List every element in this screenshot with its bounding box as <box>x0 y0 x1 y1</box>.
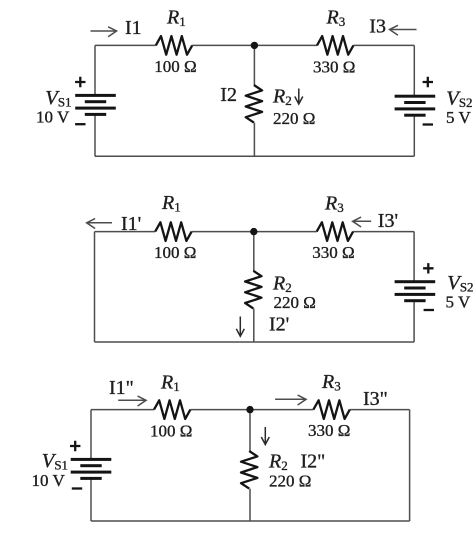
plus terminal VS2 (circuit 1) <box>423 77 433 87</box>
label VS2 (circuit 2) <box>447 272 473 295</box>
wire: circuit 3 top-right segment <box>350 409 410 411</box>
wire: circuit 1 right lower <box>413 115 415 156</box>
wire: circuit 2 right upper <box>413 232 415 282</box>
wire: circuit 1 left lower <box>94 114 96 156</box>
current arrow I3prime (circuit 2) <box>353 217 372 227</box>
svg-text:R2: R2 <box>272 86 292 109</box>
svg-text:I2": I2" <box>301 451 326 473</box>
wire: circuit 1 middle branch lower <box>253 123 255 157</box>
wire: circuit 3 left upper <box>90 410 92 460</box>
svg-text:100 Ω: 100 Ω <box>154 243 196 262</box>
wire: circuit 1 left upper <box>94 45 96 95</box>
resistor R3 (circuit 2) <box>317 222 353 241</box>
label R3 (circuit 1) <box>326 7 346 30</box>
minus terminal VS2 (circuit 1) <box>423 123 433 125</box>
svg-text:330 Ω: 330 Ω <box>308 421 350 440</box>
svg-text:R2: R2 <box>268 451 288 474</box>
minus terminal VS1 (circuit 1) <box>75 123 85 125</box>
node junction circuit 1 <box>251 42 258 49</box>
wire: circuit 1 top-left segment <box>95 44 156 46</box>
svg-text:R3: R3 <box>326 7 346 30</box>
wire: circuit 3 right side <box>409 410 411 521</box>
value 100 ohm (circuit 1) <box>154 57 196 76</box>
svg-text:I1: I1 <box>125 17 142 39</box>
wire: circuit 3 middle branch upper <box>249 410 251 451</box>
resistor R1 (circuit 1) <box>156 36 192 55</box>
minus terminal VS2 (circuit 2) <box>424 309 434 311</box>
wire: circuit 3 top-middle segment <box>190 409 313 411</box>
wire: circuit 1 top-right segment <box>353 44 414 46</box>
svg-text:220 Ω: 220 Ω <box>273 109 315 128</box>
label R2 (circuit 2) <box>272 273 292 296</box>
plus terminal VS1 (circuit 3) <box>70 441 80 451</box>
label VS1 (circuit 1) <box>45 87 71 110</box>
svg-text:R1: R1 <box>160 372 180 395</box>
svg-text:10 V: 10 V <box>36 108 70 127</box>
label R1 (circuit 2) <box>161 192 181 215</box>
wire: circuit 2 top-left segment <box>95 231 156 233</box>
node junction circuit 2 <box>250 228 257 235</box>
label I2 (circuit 1) <box>220 84 237 106</box>
battery VS2 (circuit 1) <box>395 95 436 117</box>
label I1 (circuit 1) <box>125 17 142 39</box>
svg-text:I2': I2' <box>269 313 289 335</box>
svg-text:I3": I3" <box>363 388 388 410</box>
wire: circuit 1 top-middle segment <box>192 44 317 46</box>
wire: circuit 3 middle branch lower <box>249 489 251 521</box>
value 100 ohm (circuit 2) <box>154 243 196 262</box>
plus terminal VS2 (circuit 2) <box>423 263 433 273</box>
value 330 ohm (circuit 2) <box>312 243 354 262</box>
wire: circuit 2 left side <box>94 232 96 342</box>
label I1prime (circuit 2) <box>121 213 141 235</box>
label I2doubleprime (circuit 3) <box>301 451 326 473</box>
value 5 V (circuit 2) <box>446 292 471 311</box>
node junction circuit 3 <box>246 406 253 413</box>
svg-text:5 V: 5 V <box>446 292 471 311</box>
wire: circuit 1 middle branch upper <box>253 45 255 85</box>
label I1doubleprime (circuit 3) <box>109 377 134 399</box>
current arrow I3 (circuit 1) <box>390 25 417 35</box>
value 5 V (circuit 1) <box>446 108 471 127</box>
battery VS1 (circuit 1) <box>75 94 116 116</box>
svg-text:I2: I2 <box>220 84 237 106</box>
resistor R3 (circuit 1) <box>317 36 353 55</box>
svg-text:I3': I3' <box>378 210 398 232</box>
svg-text:220 Ω: 220 Ω <box>274 293 316 312</box>
wire: circuit 2 top-right segment <box>353 231 414 233</box>
wire: circuit 2 top-middle segment <box>192 231 317 233</box>
battery VS2 (circuit 2) <box>395 280 436 302</box>
wire: circuit 2 bottom <box>95 341 415 343</box>
svg-text:330 Ω: 330 Ω <box>312 243 354 262</box>
svg-text:VS1: VS1 <box>42 450 68 473</box>
label I3prime (circuit 2) <box>378 210 398 232</box>
value 220 ohm (circuit 3) <box>269 472 311 491</box>
label I3 (circuit 1) <box>369 16 386 38</box>
label R3 (circuit 3) <box>321 371 341 394</box>
label R1 (circuit 1) <box>166 7 186 30</box>
svg-text:I1': I1' <box>121 213 141 235</box>
svg-text:10 V: 10 V <box>32 471 66 490</box>
svg-text:R2: R2 <box>272 273 292 296</box>
svg-text:220 Ω: 220 Ω <box>269 472 311 491</box>
wire: circuit 3 bottom <box>91 520 410 522</box>
resistor R3 (circuit 3) <box>313 400 349 419</box>
value 100 ohm (circuit 3) <box>150 422 192 441</box>
value 10 V (circuit 1) <box>36 108 70 127</box>
label I3doubleprime (circuit 3) <box>363 388 388 410</box>
svg-text:R3: R3 <box>324 193 344 216</box>
svg-text:100 Ω: 100 Ω <box>154 57 196 76</box>
value 10 V (circuit 3) <box>32 471 66 490</box>
label VS1 (circuit 3) <box>42 450 68 473</box>
label R1 (circuit 3) <box>160 372 180 395</box>
wire: circuit 1 right upper <box>413 45 415 96</box>
wire: circuit 3 left lower <box>90 478 92 521</box>
resistor R1 (circuit 3) <box>154 400 190 419</box>
svg-text:VS2: VS2 <box>447 272 473 295</box>
label I2prime (circuit 2) <box>269 313 289 335</box>
svg-text:R1: R1 <box>166 7 186 30</box>
label VS2 (circuit 1) <box>446 88 472 111</box>
current arrow I1doubleprime (circuit 3) <box>118 396 146 406</box>
svg-text:R3: R3 <box>321 371 341 394</box>
value 220 ohm (circuit 1) <box>273 109 315 128</box>
wire: circuit 1 bottom <box>95 155 414 157</box>
svg-text:I1": I1" <box>109 377 134 399</box>
wire: circuit 2 middle branch lower <box>253 308 255 342</box>
svg-text:VS1: VS1 <box>45 87 71 110</box>
current arrow I2prime down (circuit 2) <box>236 317 244 337</box>
wire: circuit 2 right lower <box>413 301 415 342</box>
label R3 (circuit 2) <box>324 193 344 216</box>
label R2 (circuit 3) <box>268 451 288 474</box>
svg-text:I3: I3 <box>369 16 386 38</box>
value 330 ohm (circuit 1) <box>313 58 355 77</box>
resistor R2 (circuit 3) <box>241 451 257 489</box>
plus terminal VS1 (circuit 1) <box>75 77 85 87</box>
value 330 ohm (circuit 3) <box>308 421 350 440</box>
minus terminal VS1 (circuit 3) <box>72 487 82 489</box>
svg-text:100 Ω: 100 Ω <box>150 422 192 441</box>
svg-text:R1: R1 <box>161 192 181 215</box>
wire: circuit 2 middle branch upper <box>253 232 255 271</box>
resistor R1 (circuit 2) <box>155 222 191 241</box>
label R2 with down arrow (circuit 1) <box>272 86 303 109</box>
svg-text:5 V: 5 V <box>446 108 471 127</box>
current arrow I1 (circuit 1) <box>91 27 117 37</box>
current arrow I1prime (circuit 2) <box>87 219 112 229</box>
current arrow I2doubleprime down (circuit 3) <box>261 427 269 445</box>
battery VS1 (circuit 3) <box>71 458 112 480</box>
resistor R2 (circuit 2) <box>245 271 261 309</box>
current arrow before R3 (circuit 3) <box>275 395 306 405</box>
resistor R2 (circuit 1) <box>246 85 262 123</box>
wire: circuit 3 top-left segment <box>91 409 154 411</box>
svg-text:330 Ω: 330 Ω <box>313 58 355 77</box>
value 220 ohm (circuit 2) <box>274 293 316 312</box>
svg-text:VS2: VS2 <box>446 88 472 111</box>
